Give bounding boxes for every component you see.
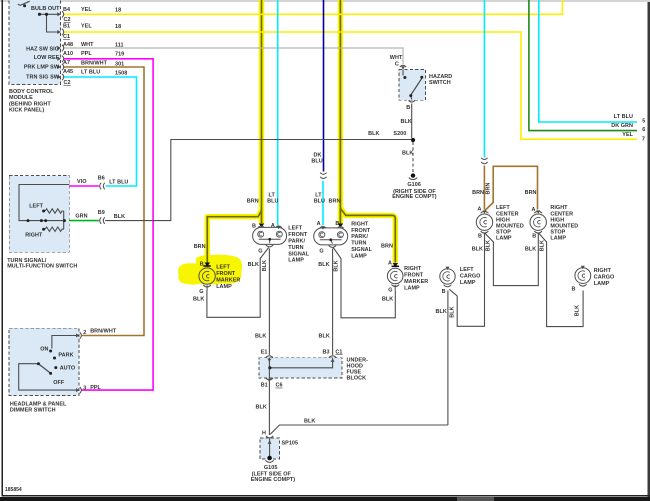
svg-text:VIO: VIO bbox=[77, 179, 87, 185]
svg-text:ENGINE COMPT): ENGINE COMPT) bbox=[251, 477, 296, 483]
svg-text:BRN: BRN bbox=[194, 244, 206, 250]
L2 pin B cup bbox=[337, 227, 343, 229]
wire VIO from B6 connector into multifunction switch bbox=[69, 185, 99, 187]
BRN core wire right vertical bbox=[339, 0, 341, 224]
svg-text:G106: G106 bbox=[407, 182, 421, 188]
multifunction switch internal input path B6 to contact row bbox=[19, 185, 69, 221]
left park/turn lamp L1 body bbox=[253, 227, 287, 244]
svg-text:BRN/WHT: BRN/WHT bbox=[81, 61, 108, 67]
hazard switch C pin cup bbox=[400, 65, 406, 67]
dimmer switch internal wire pin2 to ON contact bbox=[52, 336, 79, 349]
junction dot BCM row B4 bbox=[38, 13, 41, 16]
svg-text:BRN/WHT: BRN/WHT bbox=[90, 329, 117, 335]
svg-text:BRN: BRN bbox=[525, 190, 537, 196]
left marker filament bbox=[202, 271, 209, 280]
svg-text:B: B bbox=[406, 105, 410, 111]
svg-text:BLK: BLK bbox=[401, 119, 412, 125]
SP105 internal wire bbox=[269, 439, 271, 458]
svg-text:HIGH: HIGH bbox=[550, 217, 564, 223]
right cargo pin B cup bbox=[579, 284, 587, 286]
BCM pin arrows bbox=[57, 12, 61, 79]
svg-text:G: G bbox=[319, 249, 323, 255]
svg-text:BLK: BLK bbox=[539, 240, 545, 251]
svg-text:301: 301 bbox=[115, 62, 124, 68]
left front marker lamp body bbox=[199, 268, 215, 284]
hazard contact dots bbox=[403, 76, 423, 97]
svg-text:BLK: BLK bbox=[574, 305, 580, 316]
right front marker lamp body bbox=[387, 268, 403, 284]
svg-text:LEFT: LEFT bbox=[216, 265, 230, 271]
svg-text:B4: B4 bbox=[63, 7, 70, 13]
DK BLU to LT BLU inline connector bbox=[320, 173, 326, 179]
arrowhead at right marker lamp pin A bbox=[393, 263, 398, 267]
svg-text:LEFT: LEFT bbox=[460, 267, 474, 273]
splice pack SP105 box bbox=[260, 438, 279, 459]
svg-text:BRN: BRN bbox=[247, 199, 259, 205]
svg-text:BLU: BLU bbox=[314, 199, 325, 205]
wire GRN from multifunction switch to B9 connector bbox=[69, 220, 99, 222]
svg-text:H: H bbox=[262, 430, 266, 436]
fuse block internal wire E1 to B1 bbox=[268, 358, 270, 379]
wire PPL 719 from BCM A10 to dimmer switch pin 3 bbox=[64, 59, 154, 390]
highlighted BRN branch to right marker lamp bbox=[340, 208, 395, 264]
svg-text:BLK: BLK bbox=[193, 297, 204, 303]
svg-text:B1: B1 bbox=[261, 383, 268, 389]
wire BRN from connector to left CHMSL pin A bbox=[483, 166, 485, 210]
L1 pin A cup and arrow bbox=[275, 226, 281, 228]
svg-text:TURN: TURN bbox=[351, 241, 366, 247]
ground G106 dot and cup bbox=[411, 173, 415, 177]
BOXES bbox=[9, 0, 426, 459]
svg-text:6: 6 bbox=[642, 127, 645, 133]
L2 bulb 1 bbox=[319, 232, 325, 238]
L2 internal bus bbox=[320, 240, 342, 244]
svg-text:BLK: BLK bbox=[318, 262, 329, 268]
svg-text:B: B bbox=[335, 221, 339, 227]
BLK wire left park lamp G to fuse block E1 bbox=[268, 249, 270, 356]
svg-text:B: B bbox=[442, 289, 446, 295]
svg-text:BRN: BRN bbox=[381, 244, 393, 250]
svg-text:LEFT: LEFT bbox=[288, 226, 302, 232]
svg-text:B: B bbox=[572, 287, 576, 293]
L2 bulb 2 bbox=[337, 232, 343, 238]
multifunction switch contact dots bbox=[27, 210, 66, 231]
svg-text:YEL: YEL bbox=[81, 24, 92, 30]
svg-text:BLK: BLK bbox=[382, 297, 393, 303]
svg-text:DIMMER SWITCH: DIMMER SWITCH bbox=[10, 408, 56, 414]
svg-text:RIGHT: RIGHT bbox=[351, 221, 369, 227]
svg-text:BRN: BRN bbox=[486, 183, 492, 195]
svg-text:CARGO: CARGO bbox=[594, 275, 615, 281]
BRN core branch to right marker bbox=[340, 209, 395, 263]
svg-text:LAMP: LAMP bbox=[351, 253, 367, 259]
left marker bottom cup bbox=[203, 285, 211, 287]
wire LT BLU 1508 from BCM A45 to multifunction switch B6 connector bbox=[64, 77, 137, 186]
svg-text:B: B bbox=[532, 234, 536, 240]
left CHMSL lamp body bbox=[476, 214, 492, 230]
svg-text:B6: B6 bbox=[98, 176, 105, 182]
svg-text:2: 2 bbox=[83, 330, 86, 336]
left cargo pin B cup bbox=[444, 285, 452, 287]
svg-text:BLK: BLK bbox=[485, 240, 491, 251]
hazard switch internal wire C to contact bbox=[402, 70, 404, 76]
svg-text:BLK: BLK bbox=[472, 246, 483, 252]
BLK dashed wire from S200 to ground G106 bbox=[412, 142, 414, 172]
right CHMSL filament bbox=[534, 218, 541, 227]
wire BRN branch to right CHMSL pin A bbox=[485, 166, 538, 210]
dimmer switch contact dots bbox=[37, 350, 57, 375]
svg-text:7: 7 bbox=[642, 136, 645, 142]
BCM internal wire to pin B4 with branch to pin B1 bbox=[40, 14, 61, 32]
svg-text:FRONT: FRONT bbox=[404, 273, 424, 279]
svg-text:MOUNTED: MOUNTED bbox=[496, 224, 524, 230]
svg-text:BLK: BLK bbox=[368, 131, 379, 137]
svg-text:OFF: OFF bbox=[53, 380, 65, 386]
svg-text:LT: LT bbox=[315, 193, 322, 199]
dimmer pin 3 arrow and cup bbox=[76, 388, 79, 392]
splice H cup and arrow bbox=[266, 436, 273, 438]
svg-text:B3: B3 bbox=[323, 349, 330, 355]
BLK wire fuse block B1 down to splice H bbox=[268, 381, 270, 435]
highlighted BRN wire (left, to left park lamp B) bbox=[259, 0, 264, 224]
svg-text:SIGNAL: SIGNAL bbox=[288, 251, 309, 257]
bottom bar thumb bbox=[457, 497, 494, 501]
svg-text:BRN: BRN bbox=[472, 190, 484, 196]
bottom rule bbox=[2, 495, 650, 496]
svg-text:RIGHT: RIGHT bbox=[594, 268, 612, 274]
body control module U1 box bbox=[9, 0, 61, 84]
svg-text:SP105: SP105 bbox=[282, 441, 299, 447]
svg-text:BLU: BLU bbox=[267, 199, 278, 205]
BLK wire right park lamp G to fuse block B3 bbox=[332, 249, 334, 356]
hazard switch lever bbox=[411, 79, 422, 96]
left cargo lamp body bbox=[440, 269, 455, 284]
svg-text:A: A bbox=[478, 206, 482, 212]
svg-text:BLK: BLK bbox=[255, 334, 266, 340]
svg-text:PARK: PARK bbox=[58, 353, 73, 359]
svg-text:C1: C1 bbox=[335, 349, 342, 355]
svg-text:LAMP: LAMP bbox=[594, 281, 610, 287]
svg-text:LAMP: LAMP bbox=[550, 236, 566, 242]
left CHMSL pin A cup and arrow bbox=[481, 211, 489, 213]
svg-text:LAMP: LAMP bbox=[288, 258, 304, 264]
hazard switch C arrow bbox=[401, 66, 405, 69]
BLK wire left cargo lamp B down to ground bus bbox=[447, 291, 449, 426]
B9 inline connector bbox=[100, 217, 105, 224]
left marker G wire stub bbox=[206, 285, 208, 290]
L1 pin B cup bbox=[258, 226, 264, 228]
svg-text:MULTI-FUNCTION SWITCH: MULTI-FUNCTION SWITCH bbox=[7, 264, 77, 270]
left marker pin B tick bbox=[203, 265, 210, 267]
svg-text:SWITCH: SWITCH bbox=[429, 80, 451, 86]
svg-text:GRN: GRN bbox=[75, 214, 87, 220]
svg-text:G: G bbox=[199, 289, 203, 295]
svg-text:B: B bbox=[478, 234, 482, 240]
LT BLU to BRN inline connector bbox=[481, 158, 487, 164]
L2 pin A cup and arrow bbox=[320, 227, 326, 229]
right cargo top arrow bbox=[581, 266, 585, 269]
svg-text:A: A bbox=[271, 223, 275, 229]
svg-text:LAMP: LAMP bbox=[460, 280, 476, 286]
svg-text:LAMP: LAMP bbox=[404, 286, 420, 292]
svg-text:LT BLU: LT BLU bbox=[614, 114, 633, 120]
svg-text:G105: G105 bbox=[264, 465, 278, 471]
right marker G wire stub bbox=[394, 285, 396, 291]
BCM bulb-out switch bbox=[18, 1, 30, 5]
right marker bottom cup bbox=[391, 285, 399, 287]
svg-text:BLK: BLK bbox=[114, 214, 125, 220]
svg-text:A7: A7 bbox=[63, 60, 70, 66]
svg-text:18: 18 bbox=[115, 8, 121, 14]
svg-text:SIGNAL: SIGNAL bbox=[351, 247, 372, 253]
highlighted BRN wire (right, to right park lamp B) bbox=[338, 0, 343, 225]
left park lamp G V-split left leg to marker loop bbox=[207, 248, 269, 318]
BLK wire left CHMSL B to left cargo branch bbox=[449, 234, 484, 327]
svg-text:1508: 1508 bbox=[115, 71, 127, 77]
BLACK WIRES bbox=[19, 14, 583, 457]
svg-text:AUTO: AUTO bbox=[60, 366, 76, 372]
dimmer switch internal wire lever to pin 3 bbox=[19, 364, 77, 390]
svg-text:C2: C2 bbox=[64, 80, 71, 86]
svg-text:FRONT: FRONT bbox=[288, 232, 308, 238]
left cargo filament bbox=[443, 272, 450, 281]
svg-text:LOW REF: LOW REF bbox=[34, 55, 60, 61]
svg-text:LAMP: LAMP bbox=[216, 284, 232, 290]
highlight blob over left front marker lamp bbox=[178, 255, 242, 285]
right border bbox=[648, 2, 650, 501]
LEFT resistor zigzag bbox=[45, 209, 64, 213]
ground G105 dot and cup bbox=[267, 456, 272, 461]
svg-text:STOP: STOP bbox=[550, 230, 565, 236]
svg-text:BLK: BLK bbox=[449, 306, 455, 317]
wire YEL 18 from BCM B4 to top edge bbox=[64, 0, 563, 14]
right CHMSL pin B cup bbox=[534, 231, 542, 233]
svg-text:S200: S200 bbox=[393, 131, 406, 137]
right park/turn lamp L2 body bbox=[314, 228, 348, 245]
svg-text:C2: C2 bbox=[64, 17, 71, 23]
svg-text:3: 3 bbox=[83, 386, 86, 392]
svg-text:LEFT: LEFT bbox=[496, 205, 510, 211]
L1 pin G cup bbox=[266, 245, 273, 247]
svg-text:LT BLU: LT BLU bbox=[81, 70, 100, 76]
right marker pin A tick bbox=[392, 265, 399, 267]
right cargo filament bbox=[578, 271, 585, 280]
svg-text:HIGH: HIGH bbox=[496, 217, 510, 223]
left border bbox=[2, 0, 4, 496]
svg-text:DK GRN: DK GRN bbox=[611, 123, 633, 129]
svg-text:BLU: BLU bbox=[311, 158, 322, 164]
svg-text:A10: A10 bbox=[63, 51, 73, 57]
fuse block junction dot bbox=[268, 366, 271, 369]
svg-text:E1: E1 bbox=[261, 349, 268, 355]
hazard switch box bbox=[399, 70, 426, 101]
svg-text:A: A bbox=[388, 260, 392, 266]
right marker filament bbox=[391, 271, 398, 280]
COLOR WIRES bbox=[64, 0, 638, 390]
svg-text:BLK: BLK bbox=[333, 260, 339, 271]
BLK branch left CHMSL to right CHMSL bbox=[485, 234, 538, 286]
svg-text:BULB OUT: BULB OUT bbox=[31, 6, 60, 12]
svg-text:BLK: BLK bbox=[304, 419, 315, 425]
svg-text:B1: B1 bbox=[63, 24, 70, 30]
BLK wire from B9 connector to splice S200 bbox=[105, 140, 411, 221]
svg-text:B9: B9 bbox=[98, 210, 105, 216]
svg-text:MARKER: MARKER bbox=[216, 277, 240, 283]
junction dot BCM branch to B1 bbox=[45, 13, 48, 16]
BLK branch right CHMSL down to right cargo loop bbox=[539, 234, 583, 327]
svg-text:185854: 185854 bbox=[5, 487, 22, 493]
svg-text:BLK: BLK bbox=[262, 260, 268, 271]
dimmer switch lever bbox=[38, 364, 50, 374]
bottom bar bbox=[0, 497, 650, 501]
svg-text:CENTER: CENTER bbox=[550, 211, 573, 217]
svg-text:MOUNTED: MOUNTED bbox=[550, 224, 578, 230]
svg-text:BLK: BLK bbox=[319, 334, 330, 340]
svg-text:RIGHT: RIGHT bbox=[404, 266, 422, 272]
svg-text:WHT: WHT bbox=[81, 42, 94, 48]
BRN core wire left vertical bbox=[261, 0, 263, 223]
svg-text:A48: A48 bbox=[63, 42, 73, 48]
svg-text:PARK/: PARK/ bbox=[288, 239, 305, 245]
underhood fuse block box bbox=[259, 358, 342, 378]
L1 internal bus bbox=[259, 239, 281, 243]
BCM pin cups bbox=[62, 11, 64, 80]
svg-text:LEFT: LEFT bbox=[29, 204, 43, 210]
svg-text:TURN: TURN bbox=[288, 245, 303, 251]
svg-text:LT: LT bbox=[269, 193, 276, 199]
left cargo top arrow bbox=[446, 267, 450, 270]
svg-text:5: 5 bbox=[642, 118, 645, 124]
svg-text:BLK: BLK bbox=[248, 262, 259, 268]
svg-text:PRK LMP SW: PRK LMP SW bbox=[24, 65, 60, 71]
svg-text:PPL: PPL bbox=[81, 51, 92, 57]
svg-text:BLK: BLK bbox=[402, 150, 413, 156]
svg-text:YEL: YEL bbox=[622, 132, 633, 138]
wire LT BLU to left park lamp pin A bbox=[277, 0, 279, 225]
svg-text:111: 111 bbox=[115, 43, 124, 49]
wire LT BLU from connector to right park lamp pin A bbox=[322, 181, 324, 225]
svg-text:BLK: BLK bbox=[256, 405, 267, 411]
turn signal / multi-function switch box bbox=[9, 175, 69, 252]
svg-text:ON: ON bbox=[40, 347, 48, 353]
svg-text:MODULE: MODULE bbox=[9, 95, 33, 101]
svg-text:STOP: STOP bbox=[496, 230, 511, 236]
svg-text:CENTER: CENTER bbox=[496, 211, 519, 217]
arrowhead at left marker lamp pin B bbox=[205, 263, 210, 267]
svg-text:FRONT: FRONT bbox=[216, 271, 236, 277]
wire WHT 111 from BCM A48 to hazard switch C bbox=[64, 48, 404, 64]
svg-text:RIGHT: RIGHT bbox=[25, 232, 43, 238]
svg-text:C1: C1 bbox=[63, 34, 70, 40]
svg-text:RIGHT: RIGHT bbox=[550, 205, 568, 211]
splice S200 bbox=[411, 138, 415, 142]
L1 bulb 1 bbox=[258, 231, 264, 237]
svg-text:WHT: WHT bbox=[390, 55, 403, 61]
fuse block pin B3/C1 cup and arrow bbox=[329, 356, 336, 358]
svg-text:18: 18 bbox=[115, 24, 121, 30]
fuse block internal branch to B3/C1 bbox=[270, 358, 333, 368]
wire LT BLU from top to right edge exit 5 bbox=[539, 0, 637, 122]
svg-text:LT BLU: LT BLU bbox=[109, 180, 128, 186]
headlamp and panel dimmer switch box bbox=[9, 328, 79, 395]
svg-text:LAMP: LAMP bbox=[496, 236, 512, 242]
highlighted BRN branch to left marker lamp bbox=[207, 210, 261, 264]
svg-text:MARKER: MARKER bbox=[404, 279, 428, 285]
right park lamp G V-split right leg to right marker loop bbox=[333, 248, 395, 318]
right cargo lamp body bbox=[575, 268, 591, 284]
svg-text:HAZ SW SIG: HAZ SW SIG bbox=[26, 47, 59, 53]
svg-text:ENGINE COMPT): ENGINE COMPT) bbox=[392, 194, 437, 200]
HIGHLIGHTS bbox=[178, 0, 398, 285]
BRN core branch to left marker bbox=[207, 211, 261, 263]
svg-text:KICK PANEL): KICK PANEL) bbox=[9, 108, 44, 114]
svg-text:YEL: YEL bbox=[81, 7, 92, 13]
svg-text:B: B bbox=[252, 223, 256, 229]
BLK wire from hazard switch B to S200 bbox=[411, 104, 413, 139]
arrowhead at right park lamp pin B bbox=[338, 224, 343, 228]
svg-text:PPL: PPL bbox=[90, 385, 101, 391]
svg-text:FRONT: FRONT bbox=[351, 228, 371, 234]
svg-text:C: C bbox=[395, 62, 399, 68]
left CHMSL pin B cup bbox=[481, 231, 489, 233]
RIGHT resistor zigzag bbox=[45, 227, 64, 231]
svg-text:A: A bbox=[532, 207, 536, 213]
arrowhead at left park lamp pin B bbox=[259, 224, 264, 228]
svg-text:TRN SIG SW: TRN SIG SW bbox=[26, 75, 60, 81]
svg-text:719: 719 bbox=[115, 52, 124, 58]
BLK ground bus to splice H bbox=[270, 425, 448, 434]
svg-text:A45: A45 bbox=[63, 69, 73, 75]
svg-text:A: A bbox=[317, 221, 321, 227]
svg-text:BLOCK: BLOCK bbox=[347, 376, 367, 382]
svg-text:CARGO: CARGO bbox=[460, 274, 481, 280]
svg-text:G: G bbox=[388, 288, 392, 294]
fuse block pin B1/C6 cup and arrow bbox=[266, 378, 273, 380]
svg-text:BRN: BRN bbox=[329, 199, 341, 205]
wire YEL 18 from BCM B1 to right edge exit 7 bbox=[64, 32, 638, 139]
top border bbox=[0, 1, 650, 2]
wire DK GRN from top to right edge exit 6 bbox=[529, 0, 637, 131]
svg-text:B: B bbox=[200, 261, 204, 267]
fuse block pin E1 cup and arrow bbox=[266, 356, 273, 358]
dimmer pin 2 arrow and cup bbox=[76, 334, 79, 338]
B6 inline connector bbox=[100, 183, 105, 190]
left CHMSL filament bbox=[480, 218, 487, 227]
svg-text:BLK: BLK bbox=[436, 309, 447, 315]
wire DK BLU from top to inline connector bbox=[323, 0, 325, 172]
right CHMSL lamp body bbox=[530, 214, 546, 230]
multifunction switch LEFT resistor branch vertical bbox=[63, 211, 65, 229]
L2 pin G cup bbox=[329, 246, 336, 248]
svg-text:G: G bbox=[258, 248, 262, 254]
L1 bulb 2 bbox=[276, 231, 282, 237]
hazard switch B pin cup bbox=[409, 100, 415, 102]
right CHMSL pin A cup and arrow bbox=[534, 211, 542, 213]
svg-text:C6: C6 bbox=[276, 383, 283, 389]
wire LT BLU from top to connector above CHMSL lamps bbox=[483, 0, 485, 158]
svg-text:PARK/: PARK/ bbox=[351, 234, 368, 240]
wire BRN/WHT 301 from BCM A7 to dimmer switch pin 2 bbox=[64, 67, 145, 336]
hazard switch wire lever to pin B bbox=[410, 96, 413, 100]
svg-text:BLK: BLK bbox=[525, 246, 536, 252]
